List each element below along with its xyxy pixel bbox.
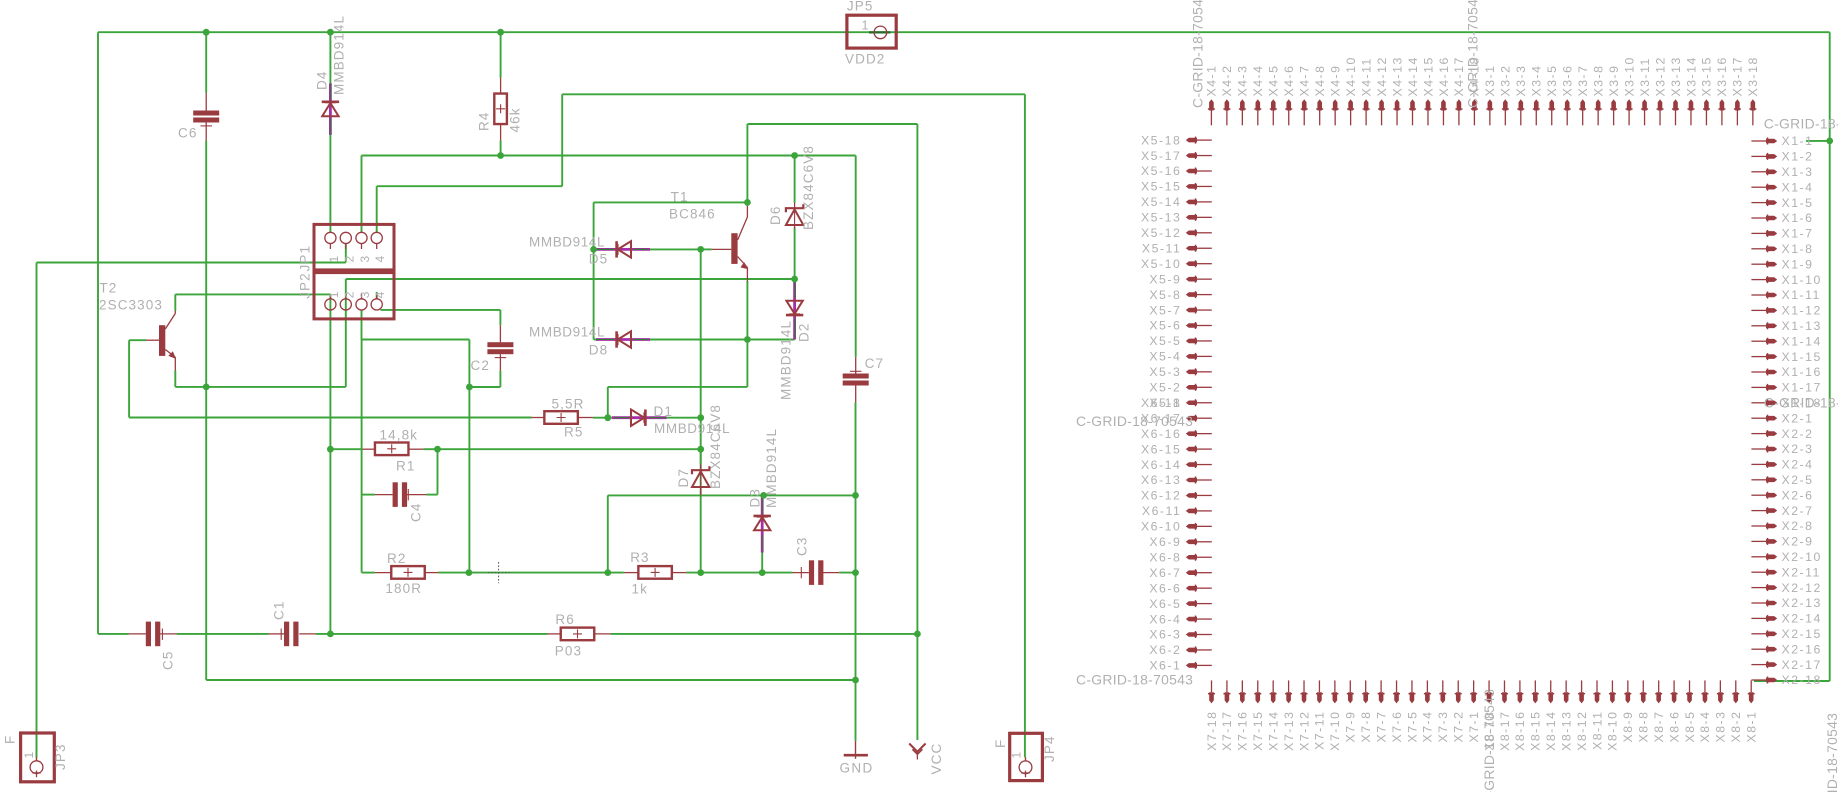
svg-text:JP1: JP1: [298, 245, 313, 272]
svg-text:X7-18: X7-18: [1205, 711, 1219, 751]
transistor T2 2SC3303: [159, 325, 165, 356]
pin X5-14: [1186, 200, 1197, 205]
wire R1 row: [330, 448, 362, 450]
pin X7-15: [1255, 692, 1260, 703]
wire JP2 pin3 drop: [361, 310, 363, 340]
capacitor C5: [129, 633, 146, 635]
capacitor C7: [855, 357, 857, 374]
capacitor C6: [205, 93, 207, 111]
svg-text:X8-5: X8-5: [1683, 711, 1697, 743]
resistor R1: [375, 443, 409, 456]
wire JP2 pin4 row to C2: [376, 292, 378, 299]
svg-text:X1-4: X1-4: [1782, 180, 1814, 194]
svg-text:C-GRID-18-70543: C-GRID-18-70543: [1190, 0, 1206, 108]
pin X6-7: [1186, 570, 1197, 575]
svg-text:D1: D1: [654, 404, 673, 419]
pin X7-6: [1394, 692, 1399, 703]
resistor R4: [500, 78, 502, 94]
wire JP4 top rail: [562, 93, 1025, 95]
pin X8-16: [1518, 692, 1523, 703]
svg-text:R3: R3: [630, 550, 649, 565]
pin X5-4: [1186, 354, 1197, 359]
svg-text:X3-15: X3-15: [1700, 56, 1714, 96]
svg-text:X5-17: X5-17: [1141, 149, 1181, 163]
wire D5 right link: [633, 248, 701, 250]
pin X1-6: [1766, 216, 1777, 221]
pin X2-9: [1766, 539, 1777, 544]
svg-text:X4-15: X4-15: [1421, 56, 1435, 96]
svg-text:R4: R4: [477, 112, 492, 131]
wire D3 bottom link: [761, 553, 763, 573]
svg-text:X7-13: X7-13: [1282, 711, 1296, 751]
pin X1-9: [1766, 262, 1777, 267]
wire D6 top link: [794, 156, 796, 203]
pin X8-5: [1687, 692, 1692, 703]
svg-text:X1-1: X1-1: [1782, 134, 1814, 148]
wire C7 top drop: [855, 156, 857, 357]
svg-text:X1-2: X1-2: [1782, 150, 1814, 164]
svg-text:1: 1: [327, 291, 341, 299]
wire JP2 pin3 row: [362, 339, 470, 341]
svg-text:X4-11: X4-11: [1359, 57, 1373, 96]
wire T2 base row to R5: [129, 417, 531, 419]
wire T2 emitter row: [175, 386, 345, 388]
svg-text:C1: C1: [272, 601, 287, 620]
svg-text:X1-17: X1-17: [1782, 381, 1822, 395]
pin X3-9: [1611, 99, 1616, 110]
pin X3-14: [1689, 99, 1694, 110]
pin X7-7: [1379, 692, 1384, 703]
svg-text:R6: R6: [555, 612, 574, 627]
svg-text:X8-16: X8-16: [1513, 711, 1527, 751]
wire C2 bottom vertical: [468, 340, 470, 573]
pin X5-1: [1186, 400, 1197, 405]
connector JP1: [314, 224, 394, 272]
svg-text:C6: C6: [178, 126, 197, 141]
svg-text:X7-1: X7-1: [1467, 711, 1481, 743]
diode D5: [596, 248, 650, 251]
wire JP1 pin4 row: [377, 185, 563, 187]
pin X4-15: [1426, 99, 1431, 110]
wire JP2 pin1 vertical to C1: [329, 294, 331, 634]
connector JP5: [847, 15, 896, 48]
wire JP1 pin2 to JP3 vertical: [36, 263, 38, 758]
svg-text:X3-1: X3-1: [1483, 65, 1497, 97]
power symbol VCC: [909, 744, 925, 752]
svg-text:T2: T2: [99, 281, 117, 296]
pin X3-4: [1534, 99, 1539, 110]
wire D7 row riser: [607, 495, 609, 572]
svg-text:X3-16: X3-16: [1715, 56, 1729, 96]
wire riser to JP4 rail: [561, 94, 563, 186]
pin X1-15: [1766, 354, 1777, 359]
wire JP1 pin2 stub: [345, 243, 347, 262]
svg-text:X2-7: X2-7: [1782, 504, 1814, 518]
pin X1-8: [1766, 247, 1777, 252]
pin X8-7: [1656, 692, 1661, 703]
pin X6-3: [1186, 632, 1197, 637]
pin X7-16: [1240, 692, 1245, 703]
svg-text:X8-12: X8-12: [1575, 711, 1589, 751]
svg-text:X2-14: X2-14: [1782, 612, 1822, 626]
svg-text:X4-6: X4-6: [1282, 65, 1296, 97]
svg-text:X8-3: X8-3: [1714, 711, 1728, 743]
zener diode D6: [794, 203, 796, 209]
wire D5 column: [593, 202, 595, 339]
pin X4-3: [1240, 99, 1245, 110]
svg-text:X5-3: X5-3: [1149, 365, 1181, 379]
svg-text:X1-5: X1-5: [1782, 196, 1814, 210]
svg-text:X5-9: X5-9: [1149, 272, 1181, 286]
pin X5-17: [1186, 153, 1197, 158]
pin X3-1: [1488, 99, 1493, 110]
svg-text:JP3: JP3: [53, 743, 68, 770]
svg-text:X2-15: X2-15: [1782, 627, 1822, 641]
pin X2-18: [1766, 678, 1777, 683]
svg-text:180R: 180R: [385, 581, 422, 596]
diode D4: [329, 83, 332, 135]
pin X5-5: [1186, 339, 1197, 344]
svg-text:C-GRID-18-70543: C-GRID-18-70543: [1764, 395, 1838, 411]
pin X6-9: [1186, 540, 1197, 545]
svg-text:X1-8: X1-8: [1782, 242, 1814, 256]
pin X5-2: [1186, 385, 1197, 390]
pin X8-3: [1718, 692, 1723, 703]
svg-text:X7-15: X7-15: [1251, 711, 1265, 751]
pin X7-4: [1425, 692, 1430, 703]
svg-text:X4-13: X4-13: [1390, 56, 1404, 96]
pin X4-10: [1348, 99, 1353, 110]
svg-text:1k: 1k: [632, 582, 648, 597]
resistor R5: [532, 417, 546, 419]
svg-text:X1-14: X1-14: [1782, 334, 1822, 348]
svg-text:X6-3: X6-3: [1149, 628, 1181, 642]
pin X5-10: [1186, 261, 1197, 266]
wire T1 top row: [594, 201, 748, 203]
svg-text:X2-13: X2-13: [1782, 596, 1822, 610]
svg-text:X7-14: X7-14: [1266, 711, 1280, 751]
JP2 pin pads: [329, 294, 331, 300]
pin X4-16: [1441, 99, 1446, 110]
wire JP1 pin2 horizontal: [37, 262, 346, 264]
wire D8 row: [594, 339, 795, 341]
svg-text:JP4: JP4: [1042, 735, 1057, 762]
svg-text:X6-6: X6-6: [1149, 581, 1181, 595]
wire R2 left link: [361, 571, 363, 574]
svg-text:X2-2: X2-2: [1782, 427, 1814, 441]
svg-text:X5-2: X5-2: [1149, 381, 1181, 395]
pin X3-18: [1751, 99, 1756, 110]
pin X4-8: [1317, 99, 1322, 110]
svg-text:X7-2: X7-2: [1452, 711, 1466, 743]
connector JP3: [21, 733, 55, 782]
svg-text:X4-5: X4-5: [1267, 65, 1281, 97]
svg-text:X6-8: X6-8: [1149, 550, 1181, 564]
pin X4-5: [1271, 99, 1276, 110]
pin X8-8: [1641, 692, 1646, 703]
svg-text:1: 1: [327, 255, 341, 263]
pin X5-16: [1186, 169, 1197, 174]
pin X5-11: [1186, 246, 1197, 251]
pin X2-6: [1766, 493, 1777, 498]
svg-text:MMBD914L: MMBD914L: [529, 325, 605, 340]
svg-text:X5-10: X5-10: [1141, 257, 1181, 271]
pin X3-12: [1658, 99, 1663, 110]
svg-text:C-GRID-18-70543: C-GRID-18-70543: [1076, 672, 1193, 688]
svg-text:X3-4: X3-4: [1530, 65, 1544, 97]
pin X8-9: [1626, 692, 1631, 703]
svg-text:C4: C4: [409, 503, 424, 522]
pin X8-14: [1548, 692, 1553, 703]
wire top row to C7 corner: [362, 155, 856, 157]
wire R2-R3-C3 row: [439, 572, 624, 574]
wire C6 rail lower: [205, 141, 207, 681]
svg-text:X3-14: X3-14: [1684, 56, 1698, 96]
pin X7-9: [1348, 692, 1353, 703]
svg-text:X3-10: X3-10: [1622, 56, 1636, 96]
wire GND rail horizontal: [206, 679, 855, 681]
svg-text:X7-3: X7-3: [1436, 711, 1450, 743]
svg-text:F: F: [3, 735, 18, 744]
pin X7-1: [1471, 692, 1476, 703]
svg-text:C-GRID-18-70543: C-GRID-18-70543: [1465, 0, 1481, 108]
svg-text:BZX84C6V8: BZX84C6V8: [801, 145, 816, 230]
pin X8-18: [1487, 692, 1492, 703]
svg-text:MMBD914L: MMBD914L: [779, 320, 794, 400]
transistor T1 BC846: [731, 233, 737, 264]
pin X5-12: [1186, 231, 1197, 236]
pin X2-12: [1766, 585, 1777, 590]
svg-text:X2-12: X2-12: [1782, 581, 1822, 595]
svg-text:C-GRID-18-70543: C-GRID-18-70543: [1481, 689, 1497, 792]
svg-text:X1-12: X1-12: [1782, 304, 1822, 318]
svg-text:1: 1: [1010, 751, 1024, 759]
pin X4-18: [1472, 99, 1477, 110]
wire D4 to JP1 pin1: [329, 135, 331, 233]
pin X8-10: [1610, 692, 1615, 703]
ground symbol GND: [855, 741, 857, 759]
svg-text:X3-9: X3-9: [1607, 65, 1621, 97]
wire T2 base stub: [129, 339, 146, 341]
svg-text:X6-15: X6-15: [1141, 442, 1181, 456]
pin X4-4: [1256, 99, 1261, 110]
svg-text:X6-12: X6-12: [1141, 489, 1181, 503]
pin X3-6: [1565, 99, 1570, 110]
wire T2 collector stub: [174, 294, 176, 310]
pin X7-12: [1302, 692, 1307, 703]
pin X2-10: [1766, 555, 1777, 560]
svg-text:X8-14: X8-14: [1544, 711, 1558, 751]
pin X5-18: [1186, 138, 1197, 143]
svg-text:X6-14: X6-14: [1141, 458, 1181, 472]
svg-text:X5-4: X5-4: [1149, 350, 1181, 364]
pin X8-6: [1672, 692, 1677, 703]
pin X5-7: [1186, 308, 1197, 313]
pin X6-4: [1186, 617, 1197, 622]
svg-text:X6-10: X6-10: [1141, 520, 1181, 534]
pin X1-11: [1766, 293, 1777, 298]
pin X2-15: [1766, 632, 1777, 637]
svg-text:X2-16: X2-16: [1782, 642, 1822, 656]
svg-text:D6: D6: [768, 206, 783, 225]
svg-text:X8-10: X8-10: [1606, 711, 1620, 751]
svg-text:X5-7: X5-7: [1149, 303, 1181, 317]
svg-text:X5-14: X5-14: [1141, 195, 1181, 209]
pin X1-13: [1766, 324, 1777, 329]
svg-text:X1-11: X1-11: [1782, 288, 1821, 302]
svg-text:X3-18: X3-18: [1746, 56, 1760, 96]
pin X3-10: [1627, 99, 1632, 110]
capacitor C1: [269, 633, 285, 635]
pin X6-8: [1186, 555, 1197, 560]
svg-text:14,8k: 14,8k: [380, 428, 419, 443]
wire X1-1 to right rail: [1806, 140, 1830, 142]
wire left rail vertical: [97, 32, 99, 634]
wire D6 bottom link: [794, 228, 796, 280]
svg-text:X3-2: X3-2: [1499, 65, 1513, 97]
diode D1: [593, 417, 612, 419]
pin X6-1: [1186, 663, 1197, 668]
svg-text:4: 4: [373, 255, 387, 263]
svg-text:X4-12: X4-12: [1375, 56, 1389, 96]
pin X6-5: [1186, 601, 1197, 606]
svg-text:X8-15: X8-15: [1529, 711, 1543, 751]
wire left rail to C5: [98, 633, 129, 635]
pin X7-17: [1225, 692, 1230, 703]
wire JP1 pin4 drop: [376, 186, 378, 232]
svg-text:C7: C7: [865, 356, 884, 371]
pin X8-2: [1733, 692, 1738, 703]
svg-text:1: 1: [861, 19, 869, 33]
pin X7-3: [1441, 692, 1446, 703]
pin X8-12: [1579, 692, 1584, 703]
pin X4-12: [1379, 99, 1384, 110]
svg-text:2SC3303: 2SC3303: [99, 298, 163, 313]
svg-text:X6-5: X6-5: [1149, 597, 1181, 611]
zener diode D7: [700, 464, 702, 470]
wire T1 emitter drop: [746, 281, 748, 340]
pin X6-10: [1186, 524, 1197, 529]
svg-text:X7-16: X7-16: [1236, 711, 1250, 751]
wire D4 top link: [329, 32, 331, 83]
svg-text:GND: GND: [840, 761, 874, 776]
svg-text:3: 3: [358, 255, 372, 263]
pin X4-2: [1225, 99, 1230, 110]
svg-text:X5-6: X5-6: [1149, 319, 1181, 333]
svg-text:JP2: JP2: [298, 272, 313, 299]
svg-text:X4-10: X4-10: [1344, 56, 1358, 96]
pin X1-3: [1766, 170, 1777, 175]
svg-text:C-GRID-18-70543: C-GRID-18-70543: [1764, 116, 1838, 132]
wire T2 emitter stub: [174, 371, 176, 387]
wire D1 right link: [667, 417, 701, 419]
svg-text:P03: P03: [555, 644, 582, 659]
diode D2: [793, 279, 796, 340]
pin X6-2: [1186, 648, 1197, 653]
svg-text:X6-1: X6-1: [1149, 659, 1181, 673]
pin X3-7: [1580, 99, 1585, 110]
svg-text:X5-18: X5-18: [1141, 133, 1181, 147]
svg-text:X2-3: X2-3: [1782, 442, 1814, 456]
pin X3-3: [1519, 99, 1524, 110]
svg-text:X3-12: X3-12: [1653, 56, 1667, 96]
svg-text:F: F: [993, 739, 1008, 748]
svg-text:46k: 46k: [508, 107, 523, 132]
svg-text:X7-17: X7-17: [1220, 711, 1234, 751]
svg-text:X2-10: X2-10: [1782, 550, 1822, 564]
pin X2-8: [1766, 524, 1777, 529]
pin X2-16: [1766, 647, 1777, 652]
wire right-edge drop to X1-1: [1829, 32, 1831, 681]
svg-text:X1-7: X1-7: [1782, 227, 1814, 241]
pin X3-13: [1673, 99, 1678, 110]
wire T1 top to VCC rail: [747, 123, 917, 125]
pin X2-14: [1766, 616, 1777, 621]
pin X3-17: [1735, 99, 1740, 110]
capacitor C3: [793, 572, 809, 574]
wire C2 top drop: [499, 310, 501, 325]
connector JP2: [314, 270, 394, 319]
pin X7-11: [1317, 692, 1322, 703]
pin X7-14: [1271, 692, 1276, 703]
svg-text:X8-13: X8-13: [1559, 711, 1573, 751]
pin X5-6: [1186, 323, 1197, 328]
svg-text:X6-9: X6-9: [1149, 535, 1181, 549]
svg-text:X1-9: X1-9: [1782, 257, 1814, 271]
pin X7-13: [1286, 692, 1291, 703]
wire C1 to R6: [316, 633, 548, 635]
resistor R2: [391, 566, 425, 579]
pin X1-10: [1766, 277, 1777, 282]
svg-text:X7-9: X7-9: [1344, 711, 1358, 743]
pin X4-11: [1364, 99, 1369, 110]
svg-text:X2-1: X2-1: [1782, 411, 1814, 425]
svg-text:X8-2: X8-2: [1729, 711, 1743, 743]
svg-text:X8-8: X8-8: [1637, 711, 1651, 743]
JP1 pin pads: [329, 243, 331, 249]
svg-text:2: 2: [342, 291, 356, 299]
wire C4 branch vertical: [361, 340, 363, 572]
svg-text:VCC: VCC: [929, 743, 944, 775]
svg-text:X7-5: X7-5: [1405, 711, 1419, 743]
pin X5-9: [1186, 277, 1197, 282]
origin cross marker: [488, 562, 510, 583]
pin X4-14: [1410, 99, 1415, 110]
pin X7-8: [1363, 692, 1368, 703]
svg-text:BZX84C6V8: BZX84C6V8: [708, 404, 723, 489]
pin X2-11: [1766, 570, 1777, 575]
wire T2 collector to JP2 pin1: [175, 293, 330, 295]
svg-text:5,5R: 5,5R: [552, 397, 585, 412]
svg-text:X1-15: X1-15: [1782, 350, 1822, 364]
svg-text:X4-4: X4-4: [1251, 65, 1265, 97]
svg-text:R5: R5: [564, 425, 583, 440]
svg-text:X5-16: X5-16: [1141, 164, 1181, 178]
svg-text:C-GRID-18-70543: C-GRID-18-70543: [1076, 413, 1193, 429]
svg-text:X2-17: X2-17: [1782, 658, 1822, 672]
wire JP3 entry: [36, 733, 38, 757]
wire C5 to C1: [177, 633, 269, 635]
svg-text:X1-6: X1-6: [1782, 211, 1814, 225]
diode D3: [761, 495, 764, 552]
wire T2 base corner: [128, 340, 130, 417]
svg-text:X5-5: X5-5: [1149, 334, 1181, 348]
pin X5-3: [1186, 370, 1197, 375]
wire D7 top link: [700, 449, 702, 464]
pin X2-4: [1766, 462, 1777, 467]
svg-text:C3: C3: [795, 537, 810, 556]
pin X5-13: [1186, 215, 1197, 220]
